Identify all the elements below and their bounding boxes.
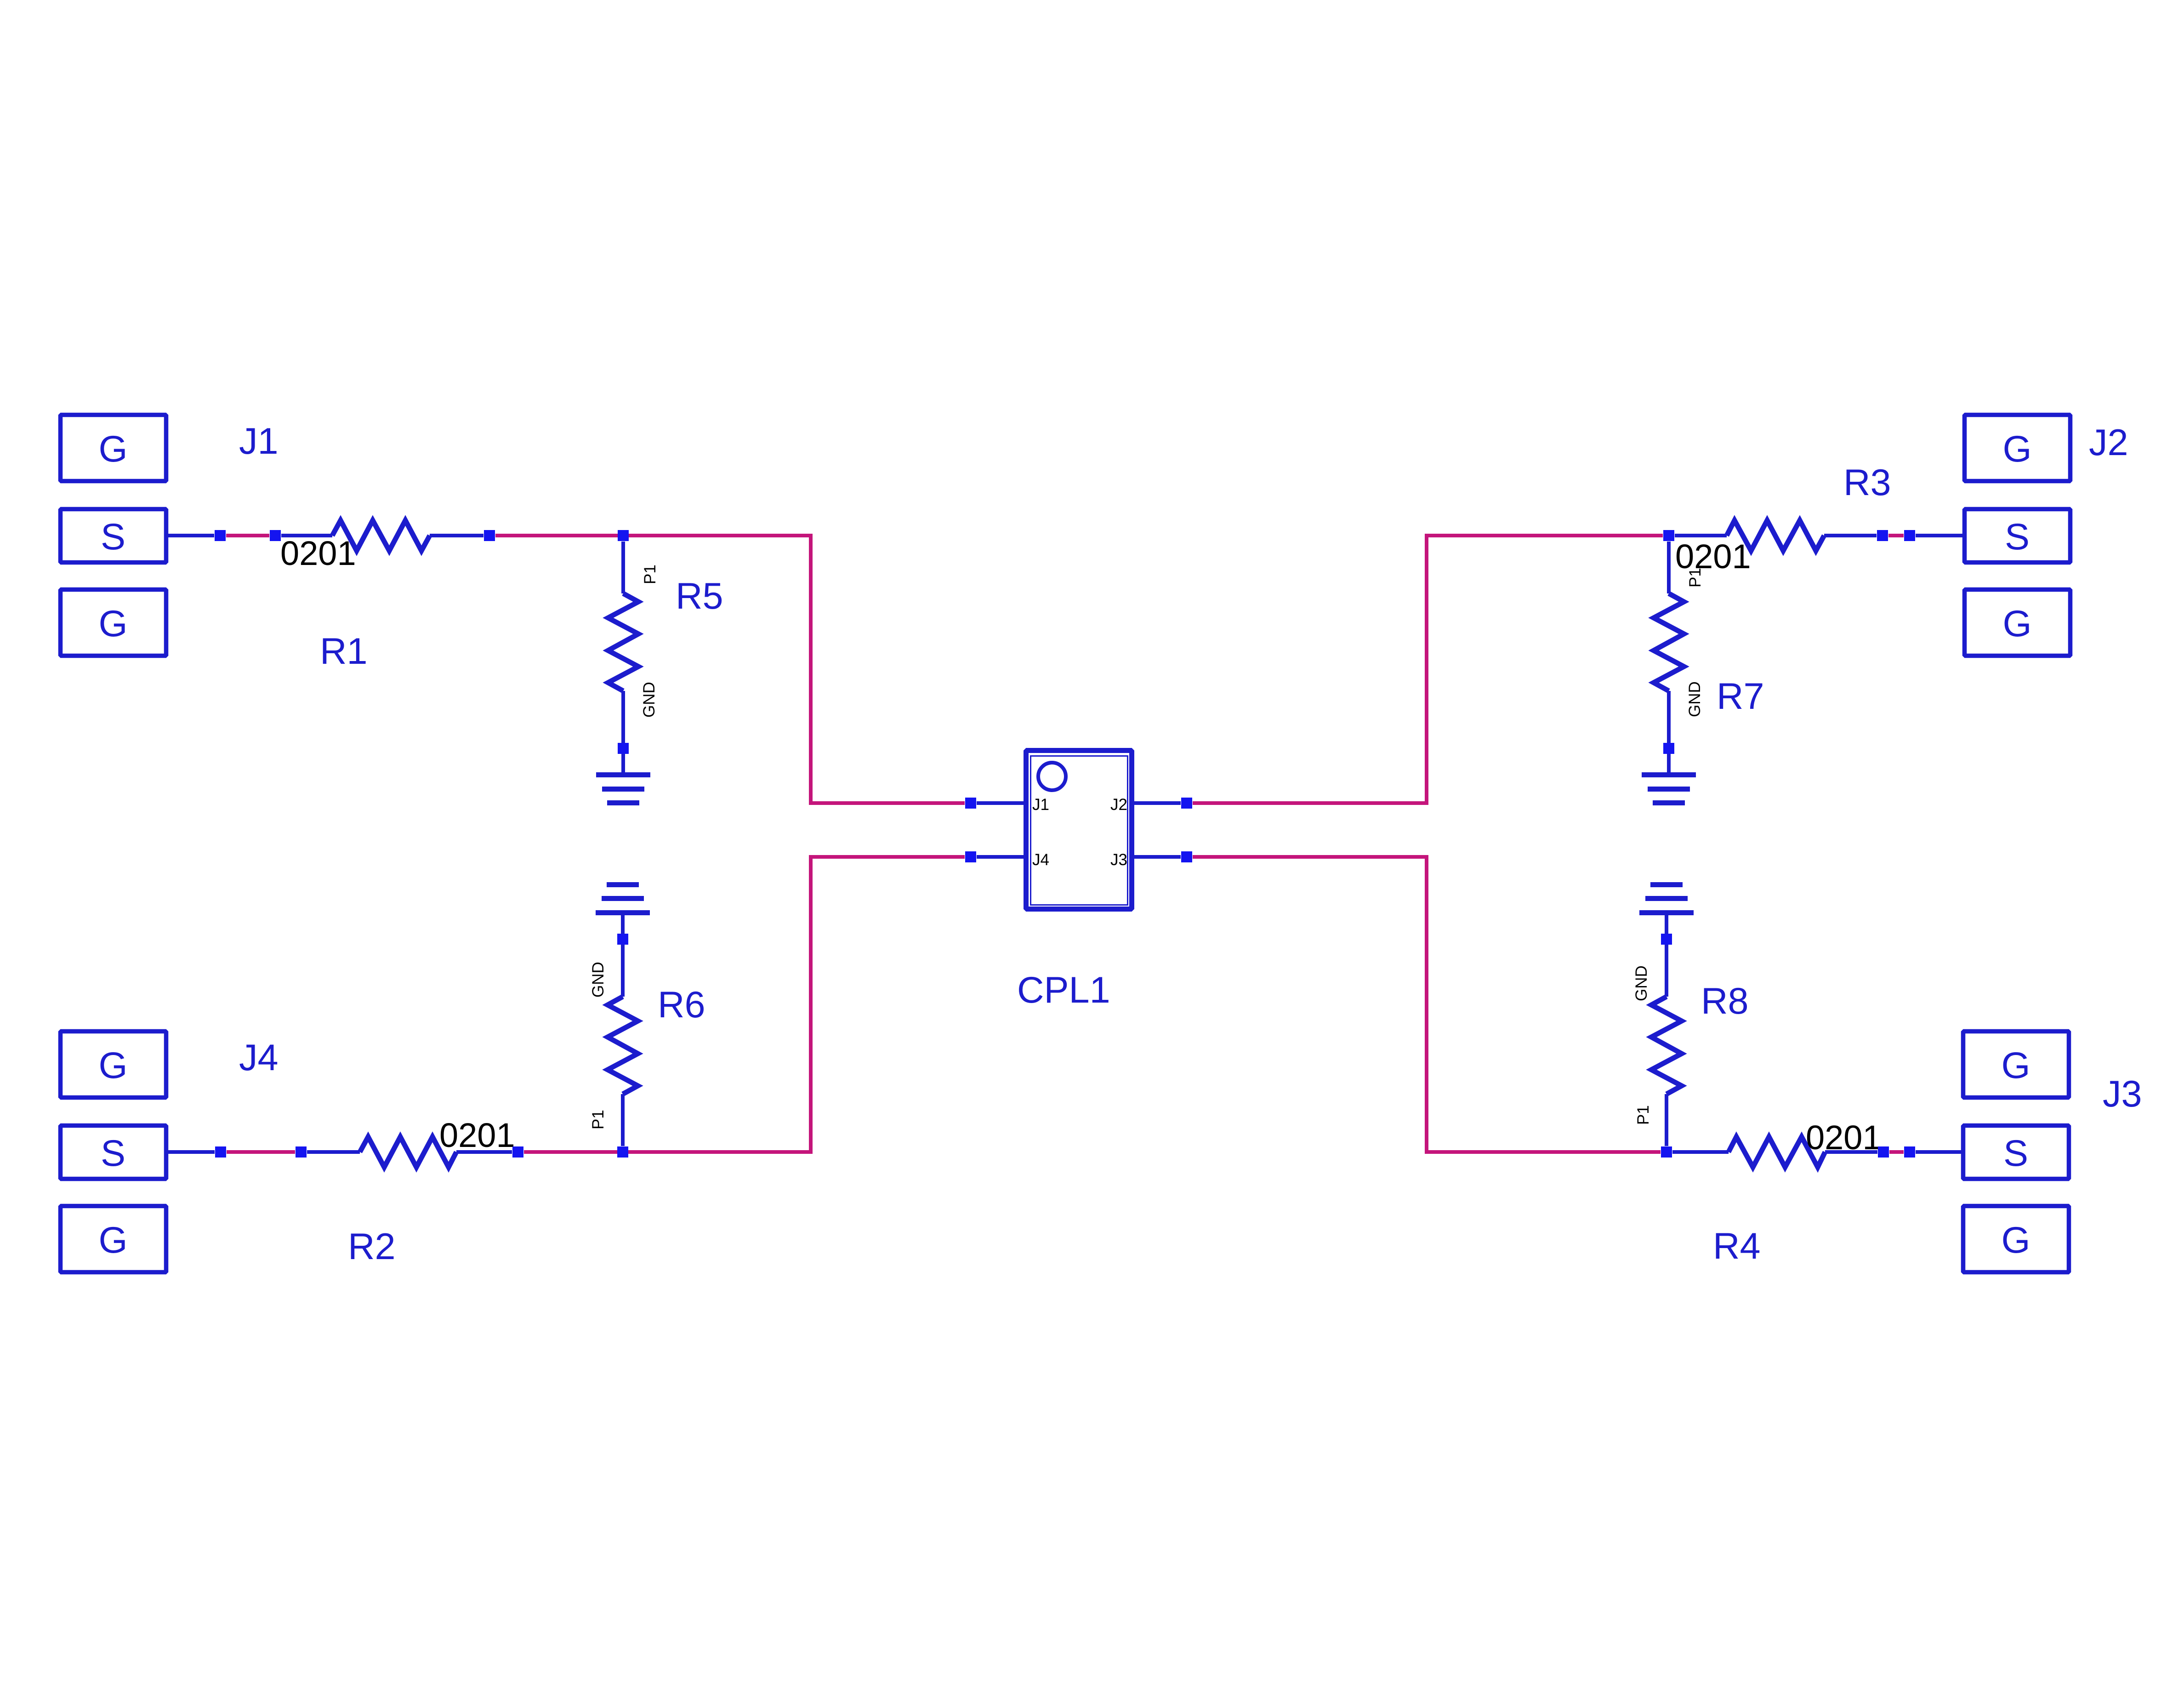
resistor R4 — [1672, 1137, 1877, 1167]
svg-text:J1: J1 — [1032, 796, 1049, 814]
svg-text:P1: P1 — [1634, 1105, 1652, 1125]
svg-text:R4: R4 — [1713, 1226, 1761, 1267]
svg-text:G: G — [98, 603, 127, 644]
svg-text:J2: J2 — [2089, 422, 2128, 463]
svg-text:GND: GND — [1686, 681, 1704, 717]
wire net R1 to CPL1 J1 (magenta) — [495, 536, 965, 803]
svg-text:S: S — [2005, 516, 2030, 558]
svg-text:GND: GND — [589, 962, 607, 998]
wire J2.S stub — [1916, 534, 1962, 537]
node R7 ground pin — [1663, 743, 1674, 754]
node R6 ground pin — [617, 934, 628, 945]
resistor R3 — [1675, 520, 1877, 551]
connector J2 pad S — [1965, 509, 2070, 563]
resistor R6 — [608, 913, 638, 1146]
node R2 pin 2 — [512, 1146, 523, 1158]
wire net J4 to R2 (magenta) — [227, 1150, 295, 1154]
svg-text:G: G — [2001, 1220, 2030, 1261]
ground (R5) — [596, 772, 650, 805]
svg-text:J3: J3 — [2103, 1073, 2142, 1115]
node CPL1 J1 pin terminal — [965, 798, 976, 809]
node J2.S terminal — [1904, 530, 1915, 541]
wire CPL1 J3 pin stub — [1133, 855, 1181, 859]
wire net CPL1 J3 to R4 (magenta) — [1193, 857, 1661, 1152]
connector J4 pad G (top) — [61, 1032, 166, 1098]
wire net R3 to J2 (magenta) — [1888, 534, 1904, 537]
node junction R7 tap / R3 pin 1 — [1663, 530, 1674, 541]
svg-text:0201: 0201 — [280, 534, 356, 572]
connector J2 pad G (bottom) — [1965, 590, 2070, 656]
svg-text:R3: R3 — [1843, 462, 1891, 503]
node CPL1 J4 pin terminal — [965, 851, 976, 862]
svg-text:P1: P1 — [641, 565, 659, 584]
connector J3 pad G (bottom) — [1963, 1206, 2069, 1272]
wire J4.S stub — [168, 1150, 215, 1154]
resistor R2 — [307, 1137, 512, 1167]
svg-text:S: S — [2003, 1133, 2028, 1174]
svg-text:G: G — [98, 1045, 127, 1086]
wire CPL1 J2 pin stub — [1133, 801, 1181, 805]
svg-text:G: G — [2001, 1045, 2030, 1086]
CPL1 pin-1 marker circle — [1038, 763, 1066, 790]
wire net R2 to CPL1 J4 (magenta) — [524, 857, 965, 1152]
connector J1 pad G (bottom) — [61, 590, 166, 656]
svg-text:CPL1: CPL1 — [1017, 969, 1110, 1011]
connector J4 pad G (bottom) — [61, 1206, 166, 1272]
connector J3 pad S — [1963, 1126, 2069, 1179]
svg-text:GND: GND — [640, 682, 658, 718]
node R1 pin 1 — [270, 530, 281, 541]
svg-text:J2: J2 — [1110, 796, 1127, 814]
svg-text:J1: J1 — [239, 421, 279, 462]
node junction R8 tap / R4 pin 1 — [1661, 1146, 1672, 1158]
node R2 pin 1 — [296, 1146, 307, 1158]
node CPL1 J3 pin terminal — [1181, 851, 1192, 862]
ground (R7) — [1642, 772, 1696, 805]
resistor R8 — [1651, 913, 1682, 1146]
resistor R7 — [1654, 542, 1684, 775]
svg-text:G: G — [98, 428, 127, 470]
svg-text:J3: J3 — [1110, 851, 1127, 869]
resistor R1 — [281, 520, 483, 551]
svg-text:0201: 0201 — [439, 1116, 515, 1154]
ground (R8, inverted) — [1639, 882, 1694, 915]
wire J3.S stub — [1916, 1150, 1961, 1154]
node J3.S terminal — [1904, 1146, 1915, 1158]
svg-text:J4: J4 — [239, 1037, 279, 1078]
connector J4 pad S — [61, 1126, 166, 1179]
svg-text:R2: R2 — [348, 1226, 396, 1267]
node R1 pin 2 — [484, 530, 495, 541]
node R8 ground pin — [1661, 934, 1672, 945]
svg-text:R7: R7 — [1717, 676, 1764, 717]
connector J3 pad G (top) — [1963, 1032, 2069, 1098]
node R5 ground pin — [618, 743, 629, 754]
node R3 pin 2 — [1877, 530, 1888, 541]
node junction R5 tap — [618, 530, 629, 541]
svg-text:GND: GND — [1632, 965, 1650, 1001]
node J4.S terminal — [215, 1146, 226, 1158]
connector J2 pad G (top) — [1965, 415, 2070, 481]
wire net CPL1 J2 to R3 (magenta) — [1193, 536, 1663, 803]
resistor R5 — [608, 542, 638, 775]
svg-text:R1: R1 — [320, 631, 368, 672]
connector J1 pad G (top) — [61, 415, 166, 481]
wire net R4 to J3 (magenta) — [1889, 1150, 1904, 1154]
connector J1 pad S — [61, 509, 166, 563]
wire J1.S stub — [168, 534, 214, 537]
svg-text:S: S — [101, 516, 125, 558]
ground (R6, inverted) — [596, 882, 650, 915]
svg-text:P1: P1 — [589, 1110, 607, 1129]
wire CPL1 J1 pin stub — [977, 801, 1024, 805]
svg-text:G: G — [2002, 603, 2031, 644]
svg-text:R8: R8 — [1701, 981, 1749, 1022]
svg-text:R5: R5 — [676, 576, 723, 617]
svg-text:S: S — [101, 1133, 125, 1174]
coupler CPL1 — [1026, 751, 1132, 909]
svg-text:R6: R6 — [658, 984, 705, 1026]
svg-text:0201: 0201 — [1806, 1118, 1882, 1157]
node junction R6 tap — [617, 1146, 628, 1158]
svg-text:G: G — [98, 1220, 127, 1261]
wire CPL1 J4 pin stub — [977, 855, 1024, 859]
node J1.S terminal — [215, 530, 226, 541]
svg-text:P1: P1 — [1686, 568, 1704, 587]
svg-text:G: G — [2002, 428, 2031, 470]
node R4 pin 2 — [1878, 1146, 1889, 1158]
node CPL1 J2 pin terminal — [1181, 798, 1192, 809]
svg-text:J4: J4 — [1032, 851, 1049, 869]
wire net J1 to R1 (magenta) — [226, 534, 269, 537]
